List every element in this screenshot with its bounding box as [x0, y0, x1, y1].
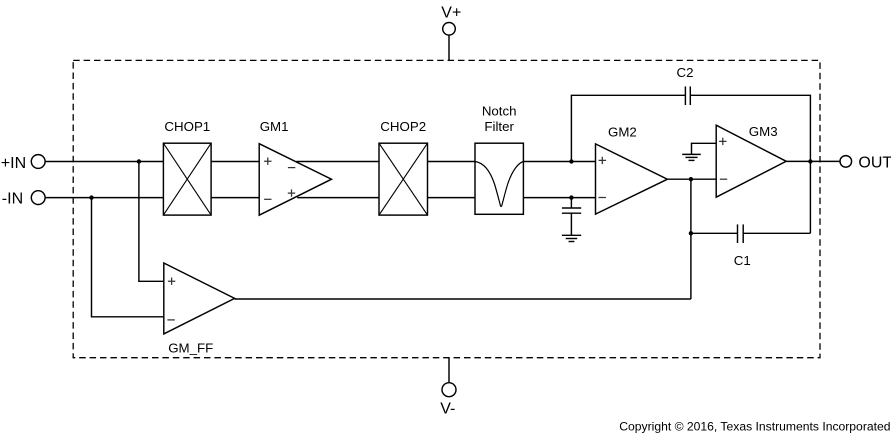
svg-text:-IN: -IN — [2, 190, 23, 207]
wire +IN node down to GM_FF + input — [139, 162, 164, 282]
svg-text:Copyright © 2016, Texas Instru: Copyright © 2016, Texas Instruments Inco… — [619, 420, 890, 434]
capacitor C1 — [734, 224, 751, 268]
svg-text:V-: V- — [440, 401, 455, 418]
node on -IN line — [89, 195, 93, 199]
svg-text:GM1: GM1 — [260, 119, 289, 134]
node GM2 - input tap — [569, 195, 573, 199]
svg-text:Filter: Filter — [484, 119, 514, 134]
ground at GM3 + input — [682, 154, 701, 160]
chopper CHOP2 — [379, 119, 428, 215]
wire ground to GM3 + input — [692, 143, 717, 154]
V- terminal — [440, 383, 456, 418]
wire V- stub — [448, 358, 450, 383]
svg-text:GM2: GM2 — [608, 125, 637, 140]
node output feedback tap — [808, 159, 812, 163]
op-amp GM1 — [259, 119, 331, 215]
wire -IN node down to GM_FF - input — [92, 198, 164, 317]
svg-text:CHOP2: CHOP2 — [380, 119, 426, 134]
wire CHOP1 to GM1 (bottom) — [211, 197, 259, 199]
wire C1 right run — [743, 232, 810, 234]
capacitor to ground at GM2 - input — [562, 198, 581, 236]
wire GM2 output to GM3 - input — [667, 178, 716, 180]
node C1 tap — [689, 231, 693, 235]
wire C1 left run — [691, 232, 738, 234]
chopper CHOP1 — [163, 119, 211, 215]
svg-text:V+: V+ — [441, 5, 461, 22]
wire C2 to right leg — [690, 95, 810, 233]
wire GM1 to CHOP2 (bottom) — [297, 197, 379, 199]
svg-text:+IN: +IN — [1, 155, 26, 172]
svg-text:GM_FF: GM_FF — [168, 341, 213, 356]
dashed device boundary box — [73, 60, 820, 357]
op-amp GM_FF — [164, 263, 235, 356]
wire V+ stub — [448, 35, 450, 60]
wire C2 feedback left leg and top run — [571, 95, 685, 161]
+IN terminal — [1, 155, 45, 172]
wire Notch to GM2 (top) — [523, 161, 595, 163]
wire CHOP1 to GM1 (top) — [211, 161, 259, 163]
notch filter block — [475, 104, 523, 215]
wire CHOP2 to Notch (bottom) — [428, 197, 476, 199]
-IN terminal — [2, 190, 45, 207]
node GM2 output — [689, 177, 693, 181]
wire Notch to GM2 (bottom) — [523, 197, 595, 199]
wire GM3 output to OUT — [786, 160, 840, 162]
OUT terminal — [840, 154, 891, 171]
wire -IN to CHOP1 — [45, 197, 163, 199]
capacitor C2 — [677, 65, 694, 105]
wire GM_FF output feedback run — [235, 298, 691, 300]
svg-text:Notch: Notch — [482, 104, 517, 119]
wire GM2 output node down to GM_FF output — [690, 179, 692, 299]
svg-text:C1: C1 — [734, 253, 751, 268]
op-amp GM2 — [596, 125, 668, 215]
node on +IN line — [137, 159, 141, 163]
op-amp GM3 — [716, 124, 786, 197]
svg-text:OUT: OUT — [858, 154, 891, 171]
ground below GM2 - input capacitor — [562, 235, 581, 241]
svg-text:GM3: GM3 — [749, 124, 778, 139]
V+ terminal — [441, 5, 461, 35]
wire GM1 to CHOP2 (top) — [296, 161, 379, 163]
svg-text:CHOP1: CHOP1 — [164, 119, 210, 134]
wire +IN to CHOP1 — [45, 161, 163, 163]
node C2 tap on GM2 + input — [569, 159, 573, 163]
wire CHOP2 to Notch (top) — [428, 161, 476, 163]
svg-text:C2: C2 — [677, 65, 694, 80]
